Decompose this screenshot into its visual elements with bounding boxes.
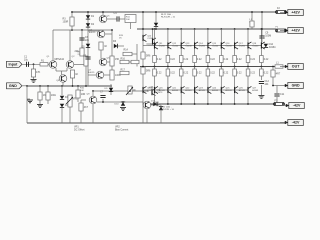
resistor R15: [79, 103, 89, 111]
wire Q27 emitter: [247, 76, 249, 87]
transistor Q6 VAS: [99, 58, 110, 66]
svg-text:0.22: 0.22: [157, 72, 162, 75]
fuse F1: [275, 29, 286, 32]
wire driver emitter: [142, 41, 144, 52]
resistor R17: [120, 68, 129, 74]
wire Q17 emitter: [234, 49, 236, 56]
wire Q20 collector: [154, 93, 156, 104]
resistor RE15b: [206, 69, 215, 76]
wire C2 top: [47, 86, 49, 92]
ground input bias: [31, 80, 37, 83]
wire Q14 emitter: [194, 49, 196, 56]
node column 6 top rail: [220, 28, 222, 30]
transistor Q1: [47, 56, 57, 68]
label C4: [114, 12, 118, 15]
node driver mid: [142, 66, 144, 68]
wire driver base leg: [136, 44, 138, 67]
connector J3 +42V: [280, 10, 303, 16]
transistor Q20: [155, 86, 166, 93]
node rail Q5: [102, 11, 104, 13]
transistor Q7: [88, 70, 104, 79]
wire lower driver emitter: [142, 93, 144, 123]
resistor RE16a: [220, 56, 229, 63]
diode D14: [264, 44, 268, 48]
wire driver to lower bus: [143, 89, 148, 91]
node column 2 top rail: [167, 28, 169, 30]
wire output rail to RE15b: [207, 67, 209, 70]
node R5 rail: [72, 85, 74, 87]
svg-text:A1943: A1943: [252, 89, 259, 92]
wire to speaker gnd: [273, 85, 280, 87]
capacitor C11: [274, 93, 284, 96]
node C7: [102, 101, 104, 103]
svg-text:0.22: 0.22: [197, 72, 202, 75]
svg-text:GND: GND: [292, 84, 300, 88]
wire Q12 collector: [167, 29, 169, 42]
svg-text:104: 104: [264, 83, 269, 86]
svg-text:0.22: 0.22: [250, 72, 255, 75]
svg-text:0.22: 0.22: [197, 58, 202, 61]
svg-text:15K: 15K: [115, 58, 120, 61]
svg-text:1K: 1K: [133, 89, 136, 92]
wire Q2 emitter: [66, 68, 68, 71]
svg-text:A1943: A1943: [226, 89, 233, 92]
wire D8 bottom: [155, 27, 157, 29]
node bias B: [47, 85, 49, 87]
capacitor C2: [46, 92, 57, 100]
connector J4 +42V: [280, 28, 303, 34]
wire Q9 base: [142, 102, 144, 105]
resistor R11 box: [125, 15, 136, 23]
wire Q1 collector: [52, 30, 54, 61]
wire Q26 collector: [234, 93, 236, 104]
wire D2 to Q5 base: [88, 30, 99, 32]
transistor Q4: [89, 30, 105, 38]
label D14: [269, 43, 277, 49]
resistor RE17a: [233, 56, 242, 63]
wire C9 leg: [261, 12, 263, 36]
node column 5 output: [207, 66, 209, 68]
ground main: [27, 100, 33, 103]
svg-text:DC Offset: DC Offset: [74, 128, 85, 131]
wire Q25 emitter: [220, 76, 222, 87]
wire Q8 to bias row: [92, 91, 94, 95]
wire R6 top: [77, 86, 79, 90]
resistor R7: [80, 48, 84, 56]
wire bias row: [93, 90, 148, 92]
wire RE11a to output rail: [154, 63, 156, 67]
wire gnd stub: [22, 85, 27, 87]
svg-text:100R: 100R: [63, 20, 69, 23]
svg-text:47K: 47K: [36, 71, 41, 74]
trimmer VR2 wiper: [126, 87, 133, 95]
svg-text:A1015: A1015: [88, 71, 95, 74]
node column 3 bottom rail: [180, 103, 182, 105]
wire Q23 emitter: [194, 76, 196, 87]
node rail C9: [261, 11, 263, 13]
transistor Q27: [248, 86, 259, 93]
label R7: [75, 50, 80, 53]
svg-text:RL/D22R + 10: RL/D22R + 10: [161, 17, 176, 19]
wire RE12a to output rail: [167, 63, 169, 67]
wire Q13 base: [147, 91, 149, 92]
wire diode stack top: [61, 86, 63, 95]
node comp: [81, 29, 83, 31]
wire Q18 emitter: [247, 49, 249, 56]
node column 1 output: [154, 66, 156, 68]
label R10: [80, 88, 85, 93]
svg-text:A1943: A1943: [159, 89, 166, 92]
wire Q5 to rail: [102, 12, 104, 15]
resistor R4: [38, 92, 46, 100]
svg-text:100M: 100M: [265, 34, 271, 37]
wire upper base bus: [148, 45, 261, 47]
svg-text:A1943: A1943: [199, 89, 206, 92]
resistor RE13a: [179, 56, 188, 63]
wire output rail to RE12b: [167, 67, 169, 70]
label D9: [105, 88, 109, 90]
wire output rail to RE18b: [247, 67, 249, 70]
node rail R3: [71, 11, 73, 13]
svg-text:10u: 10u: [24, 58, 29, 61]
node column 4 top rail: [194, 28, 196, 30]
diode D8: [154, 23, 158, 27]
wire Q9 emitter: [146, 109, 148, 123]
wire tail: [61, 71, 63, 75]
wire down to VAS: [111, 30, 113, 44]
transistor Q10 driver: [143, 34, 154, 41]
wire Q2 collector: [69, 30, 71, 61]
svg-text:-42V: -42V: [292, 121, 300, 125]
wire RE16a to output rail: [220, 63, 222, 67]
wire output rail to RE14b: [194, 67, 196, 70]
wire Q7 collector: [104, 74, 112, 76]
svg-text:C5200: C5200: [252, 46, 259, 48]
node column 1 top rail: [154, 28, 156, 30]
node column 8 bottom rail: [247, 103, 249, 105]
wire D7 top: [160, 105, 162, 106]
svg-text:A1943: A1943: [147, 89, 154, 92]
svg-text:4K7: 4K7: [84, 106, 89, 109]
wire Q22 collector: [180, 93, 182, 104]
label F1: [276, 27, 279, 29]
node column 2 output: [167, 66, 169, 68]
transistor Q9: [143, 101, 151, 109]
wire gnd tap: [27, 98, 30, 100]
node rail R22: [251, 11, 253, 13]
svg-text:GND: GND: [149, 87, 154, 89]
capacitor C9: [259, 32, 271, 39]
transistor Q11: [155, 42, 166, 49]
inductor L1: [275, 62, 283, 69]
svg-text:A1943: A1943: [172, 89, 179, 92]
transistor Q5 mirror: [99, 15, 110, 23]
node upper rail driver: [142, 28, 144, 30]
wire driver mid: [142, 59, 144, 67]
wire output rail to RE13b: [180, 67, 182, 70]
wire C11 top: [276, 86, 278, 94]
resistor RE13b: [179, 69, 188, 76]
wire Q24 emitter: [207, 76, 209, 87]
transistor Q22: [181, 86, 192, 93]
svg-text:Input: Input: [9, 63, 19, 67]
wire output rail to RE16b: [220, 67, 222, 70]
resistor R16: [120, 57, 129, 63]
node rail2 D8: [155, 28, 157, 30]
diode D9: [109, 88, 113, 92]
wire Q21 emitter: [167, 76, 169, 87]
svg-text:RL22 10A →: RL22 10A →: [160, 106, 172, 109]
resistor R25: [271, 70, 281, 77]
capacitor C4: [117, 16, 119, 21]
svg-text:1K: 1K: [75, 73, 78, 76]
connector J2 GND: [7, 83, 23, 89]
node output RC: [272, 66, 274, 68]
wire top positive rail: [72, 11, 276, 13]
transistor Q23: [195, 86, 206, 93]
resistor R12: [110, 56, 120, 66]
resistor RE19b: [260, 69, 269, 76]
label D13: [151, 101, 156, 103]
diode D1: [86, 15, 95, 19]
resistor R22: [250, 21, 254, 27]
node R3 mirror: [71, 29, 73, 31]
transistor Q13 bias: [152, 88, 163, 95]
connector J7 -42V: [281, 103, 304, 109]
trimmer VR1: [68, 95, 78, 107]
wire emitter tie: [56, 70, 67, 72]
resistor R21: [141, 67, 151, 74]
wire RE18a to output rail: [247, 63, 249, 67]
wire Q19 emitter: [260, 49, 262, 56]
resistor R13: [110, 70, 121, 80]
wire mirror row: [53, 29, 112, 31]
capacitor C1: [24, 56, 29, 67]
resistor RE18a: [246, 56, 255, 63]
wire input-stage ground rail: [27, 85, 112, 87]
svg-text:5R6: 5R6: [146, 55, 151, 58]
node bias D: [77, 85, 79, 87]
svg-text:0.22: 0.22: [237, 58, 242, 61]
wire output rail to RE19b: [260, 67, 262, 70]
svg-text:C5200: C5200: [226, 46, 233, 48]
label Q1 Q2 type: [55, 58, 65, 61]
resistor R20: [141, 52, 151, 59]
wire Q12 emitter: [167, 49, 169, 56]
wire bottom rail to connector: [285, 122, 287, 125]
svg-text:+42V: +42V: [291, 11, 300, 15]
wire R4 bottom: [39, 100, 41, 104]
node gnd rail left: [26, 85, 28, 87]
diode D13: [153, 102, 157, 106]
node column 4 output: [194, 66, 196, 68]
wire Q10 to Q12: [146, 43, 152, 45]
transistor Q21: [168, 86, 179, 93]
label GND mid: [149, 87, 154, 89]
resistor RE12b: [166, 69, 175, 76]
svg-text:0.22: 0.22: [210, 58, 215, 61]
wire Q16 collector: [220, 29, 222, 42]
wire Q8 emitter: [92, 104, 94, 123]
svg-text:0.22: 0.22: [184, 58, 189, 61]
wire R22 leg: [251, 12, 253, 29]
svg-text:10K: 10K: [80, 90, 84, 92]
wire D6 right: [118, 45, 124, 47]
node column 6 output: [220, 66, 222, 68]
wire RE14a to output rail: [194, 63, 196, 67]
resistor R8 feedback: [84, 56, 88, 66]
diode D2: [86, 23, 95, 27]
wire output-stage lower rail: [150, 103, 277, 105]
label D5: [82, 46, 86, 49]
resistor RE11b: [153, 69, 162, 76]
transistor Q16: [221, 42, 232, 49]
node D9: [110, 90, 112, 92]
transistor Q18: [248, 42, 259, 49]
label R8 value: [78, 52, 82, 57]
trimmer VR1 wiper: [66, 97, 73, 104]
note output devices bottom: [160, 106, 175, 112]
capacitor C12 zobel: [259, 80, 270, 86]
wire output node rail: [140, 66, 283, 68]
node column 5 bottom rail: [207, 103, 209, 105]
wire Q14 collector: [194, 29, 196, 42]
resistor R5 tail: [70, 70, 78, 78]
wire C7 leg: [102, 99, 104, 102]
wire output-stage upper rail: [137, 28, 276, 30]
connector J6 speaker ground: [280, 83, 303, 89]
wire output rail to RE11b: [154, 67, 156, 70]
resistor R16b: [131, 60, 139, 63]
node column 7 output: [234, 66, 236, 68]
wire Q20 emitter: [154, 76, 156, 87]
node D10: [122, 101, 124, 103]
svg-text:0.22: 0.22: [157, 58, 162, 61]
wire R15 bottom: [80, 111, 82, 123]
wire RE17a to output rail: [234, 63, 236, 67]
node column 9 top rail: [261, 28, 263, 30]
svg-text:RL22 10A →: RL22 10A →: [161, 13, 173, 16]
wire RE13a to output rail: [180, 63, 182, 67]
node rail driver: [142, 11, 144, 13]
node column 6 bottom rail: [220, 103, 222, 105]
label D11: [155, 102, 161, 107]
svg-text:C5200: C5200: [185, 46, 192, 48]
transistor Q25: [221, 86, 232, 93]
wire R2 bottom: [33, 77, 35, 80]
capacitor C5: [83, 55, 91, 60]
wire R11 down: [130, 23, 132, 30]
wire Q21 collector: [167, 93, 169, 104]
wire Q26 emitter: [234, 76, 236, 87]
wire R5 bottom: [72, 78, 74, 86]
svg-text:0.22: 0.22: [224, 58, 229, 61]
wire Q13 top: [151, 86, 153, 89]
wire Q9 base2: [142, 104, 144, 106]
wire Q18 collector: [247, 29, 249, 42]
wire C11 bottom: [276, 97, 278, 104]
wire Q15 collector: [207, 29, 209, 42]
label R15 value: [119, 35, 124, 40]
wire Q4 collector: [105, 33, 112, 35]
transistor Q12 driver second: [153, 38, 156, 45]
wire driver to upper bus: [143, 45, 148, 47]
node rail D8: [155, 11, 157, 13]
wire Q25 collector: [220, 93, 222, 104]
wire R15 to Q8: [81, 99, 86, 101]
node bias C: [61, 85, 63, 87]
diode D4: [60, 104, 69, 108]
svg-text:22p: 22p: [85, 39, 90, 42]
fuse F3: [273, 100, 284, 106]
transistor Q17: [235, 42, 246, 49]
wire lower base bus: [148, 89, 248, 91]
wire R16 right: [129, 61, 137, 63]
svg-text:0.22: 0.22: [250, 58, 255, 61]
wire Q23 collector: [194, 93, 196, 104]
resistor RE15a: [206, 56, 215, 63]
svg-text:10R: 10R: [81, 93, 86, 96]
svg-text:R14: R14: [124, 49, 129, 52]
resistor R9: [99, 42, 108, 50]
wire bottom negative rail: [27, 122, 286, 124]
label VR2 function: [115, 126, 129, 132]
wire driver collector: [142, 12, 144, 35]
node column 3 top rail: [180, 28, 182, 30]
wire comp leg: [81, 30, 83, 48]
diode D6: [113, 40, 118, 48]
transistor Q3 tail source: [56, 75, 67, 83]
node rail D1: [87, 11, 89, 13]
svg-text:GND: GND: [9, 84, 17, 88]
node column 1 bottom rail: [154, 103, 156, 105]
wire Q27 collector: [247, 93, 249, 104]
svg-text:RL/D22R + 10: RL/D22R + 10: [160, 109, 175, 111]
svg-text:100n: 100n: [51, 94, 57, 97]
node VR2: [129, 90, 131, 92]
wire Q6 collector: [107, 61, 112, 63]
node column 9 output: [261, 66, 263, 68]
svg-text:0.22: 0.22: [237, 72, 242, 75]
resistor R2: [31, 69, 40, 77]
wire output rail to RE17b: [234, 67, 236, 70]
label Q8: [87, 93, 91, 95]
wire R12 top: [111, 44, 113, 56]
transistor Q24: [208, 86, 219, 93]
wire rail to F1: [275, 29, 277, 31]
svg-text:C5200: C5200: [159, 46, 166, 48]
wire C4 right: [120, 18, 126, 20]
wire D1 D2 leg: [87, 12, 89, 86]
node column 7 bottom rail: [234, 103, 236, 105]
trimmer VR2: [128, 86, 136, 94]
wire R2 top: [33, 64, 35, 69]
node column 7 top rail: [234, 28, 236, 30]
resistor RE14a: [193, 56, 202, 63]
transistor Q19: [261, 42, 264, 49]
wire Q2 base to feedback: [74, 64, 84, 66]
fuse F2: [275, 7, 286, 14]
wire to Q1 base: [48, 63, 49, 65]
wire VR1 bottom: [69, 107, 71, 123]
wire Q11 emitter: [154, 49, 156, 56]
svg-text:OUT: OUT: [292, 65, 300, 69]
resistor RE19a: [260, 56, 269, 63]
wire tail to rail: [62, 82, 64, 86]
connector J5 output: [280, 64, 303, 70]
wire Q24 collector: [207, 93, 209, 104]
resistor RE17b: [233, 69, 242, 76]
